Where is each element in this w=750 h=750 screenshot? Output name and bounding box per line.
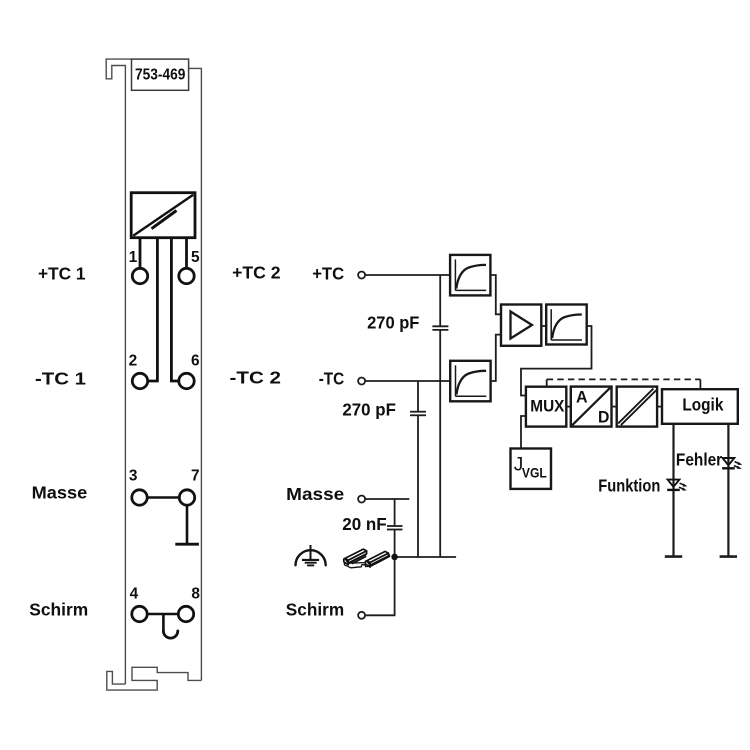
A/D converter box [571, 387, 612, 427]
capacitor C1 270pF plates [432, 325, 448, 327]
wire +TC cap branch upper [439, 275, 441, 326]
node Masse open circle [358, 496, 365, 503]
svg-text:753-469: 753-469 [135, 67, 185, 84]
node Schirm open circle [358, 612, 365, 619]
svg-text:270 pF: 270 pF [367, 313, 420, 333]
amplifier box A1 (linearization) [450, 255, 490, 296]
shield bus wire [395, 556, 457, 558]
amplifier box A2 (linearization) [450, 361, 490, 402]
shield hook drop wire [162, 614, 165, 632]
isolation box (galvanic separation) [617, 387, 657, 427]
Funktion rail end bar [665, 555, 682, 558]
wire Schirm to junction [365, 557, 394, 615]
wire -TC cap branch upper [417, 381, 419, 412]
shield hook curve [163, 631, 177, 638]
amplifier box A3 (linearization) [546, 305, 587, 345]
terminal circle 6 [179, 373, 194, 388]
node +TC open circle [358, 272, 365, 279]
wire MUX to AD [566, 406, 571, 408]
svg-text:8: 8 [191, 585, 200, 602]
transducer short parallel line [152, 211, 177, 229]
svg-text:Masse: Masse [286, 484, 344, 504]
junction dot shield node [391, 554, 398, 561]
Logik box [662, 389, 738, 424]
svg-text:MUX: MUX [530, 398, 564, 416]
svg-text:+TC 2: +TC 2 [232, 263, 281, 283]
svg-text:1: 1 [129, 249, 138, 266]
svg-text:3: 3 [129, 467, 138, 484]
svg-text:-TC 1: -TC 1 [35, 368, 86, 388]
wire MUX to VGL [521, 416, 526, 449]
svg-text:A: A [576, 388, 588, 407]
wire AD to isolation [612, 406, 617, 408]
wire +TC to box [365, 274, 450, 276]
wire A1 output to op-amp [490, 275, 501, 314]
module bottom foot [107, 667, 202, 690]
terminal circle 4 [132, 606, 147, 621]
wire Logik to Fehler LED rail [727, 424, 729, 557]
svg-text:Schirm: Schirm [29, 600, 88, 620]
module outline left profile [106, 59, 131, 684]
node -TC open circle [358, 378, 365, 385]
pin wire to terminal 6 [171, 238, 179, 381]
terminal circle 2 [132, 373, 147, 388]
op-amp U2 box [501, 305, 541, 346]
functional earth symbol [296, 545, 326, 565]
module outline right profile [189, 68, 202, 680]
svg-text:Fehler: Fehler [676, 449, 722, 469]
wire -TC cap branch lower [417, 415, 419, 557]
svg-text:D: D [598, 408, 609, 427]
wire terminal 4 to 8 [147, 613, 178, 616]
svg-text:+TC: +TC [312, 263, 344, 283]
svg-text:4: 4 [130, 585, 139, 602]
capacitor C2 270pF plates [410, 411, 426, 413]
svg-text:VGL: VGL [522, 465, 547, 480]
wire A2 output to op-amp [491, 335, 501, 381]
wire terminal 3 to 7 [147, 496, 179, 499]
svg-text:Masse: Masse [32, 483, 88, 503]
wire -TC to box [365, 380, 450, 382]
svg-text:Schirm: Schirm [286, 600, 344, 620]
wire A3 output to MUX [521, 326, 592, 396]
svg-text:-TC 2: -TC 2 [230, 367, 282, 387]
terminal circle 5 [179, 268, 194, 283]
LED Fehler [722, 458, 742, 469]
svg-text:Funktion: Funktion [598, 475, 660, 495]
svg-text:5: 5 [191, 249, 200, 266]
svg-text:+TC 1: +TC 1 [38, 263, 86, 283]
svg-text:Logik: Logik [682, 394, 723, 414]
svg-text:270 pF: 270 pF [342, 400, 396, 420]
pin wire to terminal 2 [148, 238, 158, 381]
wire Logik to Funktion LED rail [672, 424, 674, 557]
wire +TC cap branch lower [439, 330, 441, 557]
capacitor C3 20nF plates [387, 525, 403, 527]
MUX box [526, 387, 566, 427]
wire Masse [365, 498, 409, 500]
VGL comparator box [511, 449, 552, 489]
wire Masse cap branch upper [394, 499, 396, 526]
pin wire to terminal 5 [185, 238, 188, 269]
A/D diagonal [572, 388, 610, 425]
terminal circle 1 [132, 268, 147, 283]
svg-text:7: 7 [191, 467, 200, 484]
svg-text:-TC: -TC [319, 368, 345, 388]
op-amp triangle [511, 312, 533, 339]
label box 753-469 [132, 59, 189, 90]
transducer diagonal [133, 195, 193, 236]
isolation double diagonal [618, 389, 653, 424]
dashed control line MUX to Logik [546, 379, 548, 386]
wire isolation to Logik [657, 406, 662, 408]
wire Masse cap branch lower [394, 530, 396, 558]
transducer box U1 [131, 193, 195, 238]
wire terminal 7 ground tail [186, 505, 189, 544]
svg-text:6: 6 [191, 353, 200, 370]
terminal circle 7 [179, 490, 194, 505]
ground bar under terminal 7 [175, 543, 199, 546]
pin wire to terminal 1 [139, 238, 142, 269]
svg-text:20 nF: 20 nF [342, 514, 387, 534]
svg-text:2: 2 [129, 353, 138, 370]
DIN rail symbol [344, 549, 390, 568]
wire op-amp to box A3 [541, 325, 546, 327]
Fehler rail end bar [720, 555, 737, 558]
terminal circle 8 [178, 606, 193, 621]
terminal circle 3 [132, 490, 147, 505]
LED Funktion [667, 480, 687, 491]
